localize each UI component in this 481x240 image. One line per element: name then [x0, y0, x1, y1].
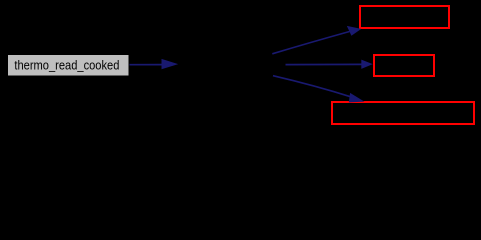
- edge arrow 2: middle node to top-right box: [272, 26, 361, 54]
- edge arrow 1: thermo_read_cooked to middle node: [130, 59, 179, 69]
- edge arrow 4: middle node to bottom-right box: [273, 76, 364, 103]
- node thermo_read_cooked (gray filled box): [8, 55, 129, 76]
- truncated node box top-right (red border): [360, 6, 449, 28]
- edge arrow 3: middle node to middle-right box: [286, 60, 373, 69]
- truncated node box bottom-right (red border): [332, 102, 474, 124]
- truncated node box middle-right (red border): [374, 55, 434, 76]
- svg-text:thermo_read_cooked: thermo_read_cooked: [14, 57, 119, 72]
